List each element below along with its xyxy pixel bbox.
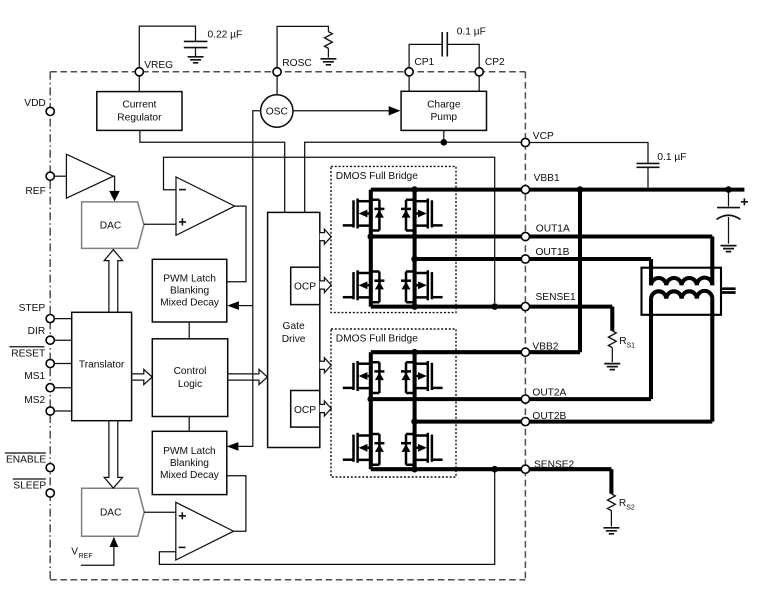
gate drive arrow to bridge2 high side bbox=[320, 358, 331, 373]
wire DAC to comparator + bbox=[144, 223, 176, 225]
transistor Q3 (bridge1 low-side A) bbox=[343, 270, 385, 302]
svg-text:OUT2B: OUT2B bbox=[532, 411, 566, 422]
wire CP2 terminal to charge pump bbox=[478, 72, 480, 92]
ground (RS1) bbox=[604, 364, 620, 370]
resistor RS2 bbox=[609, 469, 613, 494]
terminal DIR bbox=[46, 336, 54, 344]
wire CP1 terminal to charge pump bbox=[408, 72, 410, 92]
svg-text:R: R bbox=[619, 336, 626, 347]
svg-text:MS1: MS1 bbox=[24, 371, 45, 382]
ground (RS2) bbox=[603, 528, 619, 534]
block PWM Latch 2 bbox=[152, 431, 227, 494]
chip boundary bottom (dashed) bbox=[50, 579, 525, 581]
svg-text:DAC: DAC bbox=[100, 220, 122, 231]
terminal VBB1 bbox=[521, 186, 529, 194]
svg-text:Blanking: Blanking bbox=[170, 286, 209, 297]
electrolytic cap at VBB1 bbox=[728, 190, 730, 207]
terminal ROSC bbox=[273, 68, 281, 76]
gate drive arrow to bridge1 high side bbox=[320, 229, 331, 244]
transistor Q2 (bridge1 high-side B) bbox=[401, 199, 443, 231]
wire ROSC to resistor bbox=[277, 26, 328, 67]
resistor ROSC bbox=[325, 32, 333, 49]
block Control Logic bbox=[152, 339, 227, 417]
svg-text:Pump: Pump bbox=[430, 112, 457, 123]
block Translator bbox=[72, 312, 132, 420]
ground (VREG cap) bbox=[188, 57, 204, 63]
wire CP2 to pump capacitor bbox=[447, 44, 479, 67]
svg-text:PWM Latch: PWM Latch bbox=[163, 273, 216, 284]
terminal REF bbox=[46, 172, 54, 180]
svg-text:SENSE2: SENSE2 bbox=[534, 459, 575, 470]
svg-text:REF: REF bbox=[25, 186, 45, 197]
svg-text:VBB2: VBB2 bbox=[532, 342, 558, 353]
ground (ROSC resistor) bbox=[320, 59, 336, 65]
svg-text:Current: Current bbox=[122, 100, 156, 111]
wire ROSC terminal to OSC bbox=[276, 72, 278, 95]
wire buffer to DAC bbox=[113, 176, 114, 191]
terminal OUT1B bbox=[521, 255, 529, 263]
transistor Q1 (bridge1 high-side A) bbox=[343, 199, 385, 231]
wire charge pump output stub bbox=[443, 130, 445, 142]
svg-text:0.22 µF: 0.22 µF bbox=[208, 30, 243, 41]
block OCP 1 bbox=[291, 267, 320, 304]
buffer amp (REF input) bbox=[66, 154, 113, 198]
chip boundary left (dash-dot) bbox=[49, 72, 51, 580]
svg-text:S2: S2 bbox=[626, 505, 635, 512]
svg-text:RESET: RESET bbox=[11, 349, 45, 360]
wire DAC2 to comparator2 + bbox=[144, 511, 176, 513]
transistor Q4 (bridge1 low-side B) bbox=[401, 270, 443, 302]
svg-text:VDD: VDD bbox=[24, 98, 46, 109]
wire comparator2 output to PWM latch 2 bbox=[227, 476, 246, 532]
svg-text:S1: S1 bbox=[627, 343, 636, 350]
transistor Q8 (bridge2 low-side B) bbox=[401, 433, 443, 465]
wire VCP net: gate drive up, right to VCP terminal bbox=[305, 142, 522, 212]
svg-text:CP2: CP2 bbox=[485, 57, 505, 68]
DAC U2 bbox=[82, 488, 145, 536]
bridge2 left leg bbox=[369, 352, 373, 469]
transistor Q7 (bridge2 low-side A) bbox=[343, 433, 385, 465]
motor shaft bbox=[721, 289, 736, 293]
svg-text:OCP: OCP bbox=[294, 405, 316, 416]
terminal ENABLE bbox=[46, 464, 54, 472]
wire VREG terminal to current regulator bbox=[138, 72, 140, 92]
wire VCP to decoupling cap bbox=[530, 143, 649, 164]
svg-text:STEP: STEP bbox=[19, 303, 46, 314]
block Current Regulator bbox=[97, 92, 182, 131]
stepper motor bbox=[642, 268, 722, 315]
terminal OUT2A bbox=[521, 395, 529, 403]
arrowhead into DAC 1 bbox=[109, 191, 120, 202]
bridge1 right leg bbox=[413, 190, 417, 307]
svg-text:ENABLE: ENABLE bbox=[6, 455, 46, 466]
svg-text:R: R bbox=[619, 498, 626, 509]
wire CP1 to pump capacitor bbox=[409, 44, 442, 67]
svg-text:Drive: Drive bbox=[282, 334, 306, 345]
wire control logic to PWM latch 2 bbox=[188, 417, 190, 432]
svg-text:OSC: OSC bbox=[266, 107, 288, 118]
OUT2A rail bbox=[371, 299, 651, 400]
VBB1 rail bbox=[371, 188, 745, 192]
svg-text:DMOS Full Bridge: DMOS Full Bridge bbox=[336, 171, 418, 182]
capacitor 0.1uF (CP1-CP2) bbox=[442, 32, 447, 57]
wire OSC to charge pump bbox=[293, 110, 389, 112]
ground (VBB1 cap) bbox=[721, 246, 737, 252]
terminal STEP bbox=[46, 315, 54, 323]
wire REF to buffer bbox=[54, 175, 66, 177]
OUT2B rail bbox=[415, 299, 713, 422]
wire comparator1 minus input feedback from SENSE1 bbox=[164, 157, 495, 303]
terminal VREG bbox=[135, 68, 143, 76]
terminal RESET bbox=[46, 359, 54, 367]
svg-text:0.1 µF: 0.1 µF bbox=[657, 152, 686, 163]
terminal VDD bbox=[46, 107, 54, 115]
terminal VCP bbox=[521, 138, 529, 146]
svg-text:DAC: DAC bbox=[100, 508, 122, 519]
OCP2 arrow to bridge2 bbox=[320, 401, 331, 416]
capacitor 0.22uF bbox=[184, 41, 208, 47]
terminal SLEEP bbox=[46, 489, 54, 497]
arrowhead into charge pump bbox=[389, 106, 401, 115]
svg-text:ROSC: ROSC bbox=[282, 58, 311, 69]
DMOS full bridge 1 dotted box bbox=[331, 166, 456, 312]
terminal VBB2 bbox=[521, 348, 529, 356]
svg-text:OCP: OCP bbox=[294, 282, 316, 293]
svg-text:Gate: Gate bbox=[283, 321, 305, 332]
block Charge Pump bbox=[401, 91, 486, 130]
hollow arrow translator to DAC2 bbox=[104, 421, 122, 488]
junction (charge pump to VCP net) bbox=[441, 139, 448, 146]
terminal OUT1A bbox=[521, 232, 529, 240]
svg-text:Charge: Charge bbox=[427, 100, 461, 111]
svg-text:Regulator: Regulator bbox=[117, 112, 162, 123]
wire branch to PWM latch 1 bbox=[239, 305, 253, 307]
svg-text:OUT1B: OUT1B bbox=[536, 247, 570, 258]
svg-text:OUT2A: OUT2A bbox=[532, 387, 566, 398]
terminal OUT2B bbox=[521, 418, 529, 426]
terminal MS2 bbox=[46, 407, 54, 415]
terminal CP2 bbox=[475, 68, 483, 76]
svg-text:VCP: VCP bbox=[533, 131, 554, 142]
svg-text:SENSE1: SENSE1 bbox=[536, 292, 577, 303]
terminal CP1 bbox=[405, 68, 413, 76]
svg-text:CP1: CP1 bbox=[414, 57, 434, 68]
svg-text:PWM Latch: PWM Latch bbox=[163, 446, 216, 457]
svg-text:OUT1A: OUT1A bbox=[536, 224, 570, 235]
chip boundary right (dashed) bbox=[524, 72, 526, 580]
wire comparator1 output to PWM latch 1 bbox=[227, 206, 246, 282]
svg-text:MS2: MS2 bbox=[24, 395, 45, 406]
wire OSC clock line down to PWM latches bbox=[239, 111, 261, 447]
terminal MS1 bbox=[46, 384, 54, 392]
svg-text:DMOS Full Bridge: DMOS Full Bridge bbox=[336, 334, 418, 345]
arrowhead into PWM latch 1 bbox=[227, 301, 239, 310]
DMOS full bridge 2 dotted box bbox=[331, 329, 456, 477]
OCP1 arrow to bridge1 bbox=[320, 278, 331, 293]
svg-text:Translator: Translator bbox=[79, 359, 125, 370]
DAC U1 bbox=[82, 202, 144, 249]
wire VREG to bypass cap bbox=[139, 26, 195, 68]
svg-text:Logic: Logic bbox=[178, 379, 202, 390]
svg-text:VREG: VREG bbox=[144, 60, 173, 71]
svg-text:0.1 µF: 0.1 µF bbox=[457, 26, 486, 37]
capacitor 0.1uF (VCP) bbox=[637, 163, 660, 167]
VBB2 rail and link to VBB1 bbox=[371, 190, 580, 353]
terminal SENSE1 bbox=[521, 303, 529, 311]
bridge1 left leg bbox=[369, 190, 373, 307]
OUT1A rail bbox=[371, 237, 713, 286]
comparator 2 bbox=[176, 502, 234, 560]
pin wires translator inputs bbox=[54, 319, 71, 411]
transistor Q5 (bridge2 high-side A) bbox=[343, 361, 385, 393]
block PWM Latch 1 bbox=[152, 259, 227, 322]
resistor RS1 bbox=[610, 307, 614, 331]
svg-text:Control: Control bbox=[174, 366, 207, 377]
transistor Q6 (bridge2 high-side B) bbox=[401, 361, 443, 393]
svg-text:Blanking: Blanking bbox=[170, 458, 209, 469]
block Gate Drive bbox=[268, 212, 320, 447]
hollow arrow control logic to gate drive bbox=[228, 369, 268, 384]
arrowhead into DAC 2 bbox=[110, 537, 119, 547]
chip boundary top (dashed) bbox=[50, 71, 525, 73]
svg-text:DIR: DIR bbox=[28, 326, 46, 337]
junction dots bbox=[411, 186, 418, 193]
OUT1B rail bbox=[415, 259, 651, 285]
oscillator OSC bbox=[261, 95, 293, 127]
arrowhead into PWM latch 2 bbox=[227, 442, 239, 451]
terminal SENSE2 bbox=[521, 465, 529, 473]
svg-text:Mixed Decay: Mixed Decay bbox=[160, 298, 220, 309]
svg-text:Mixed Decay: Mixed Decay bbox=[160, 470, 220, 481]
svg-text:REF: REF bbox=[79, 553, 93, 560]
hollow arrow translator to control logic bbox=[132, 369, 152, 384]
svg-text:SLEEP: SLEEP bbox=[13, 481, 46, 492]
wire VREG net: current regulator down to gate drive bbox=[140, 130, 285, 212]
svg-text:VBB1: VBB1 bbox=[534, 173, 560, 184]
SENSE2 rail bbox=[371, 467, 612, 471]
block OCP 2 bbox=[291, 391, 320, 428]
wire PWM latch 1 to control logic bbox=[188, 322, 190, 339]
bridge2 right leg bbox=[413, 352, 417, 469]
svg-text:V: V bbox=[71, 546, 78, 557]
comparator 1 bbox=[176, 177, 235, 235]
hollow arrow translator to DAC1 bbox=[104, 250, 122, 313]
wire comparator2 minus feedback from SENSE2 bbox=[159, 472, 494, 564]
SENSE1 rail bbox=[371, 305, 613, 309]
motor winding 2 bbox=[651, 291, 712, 299]
motor winding 1 bbox=[651, 278, 712, 286]
